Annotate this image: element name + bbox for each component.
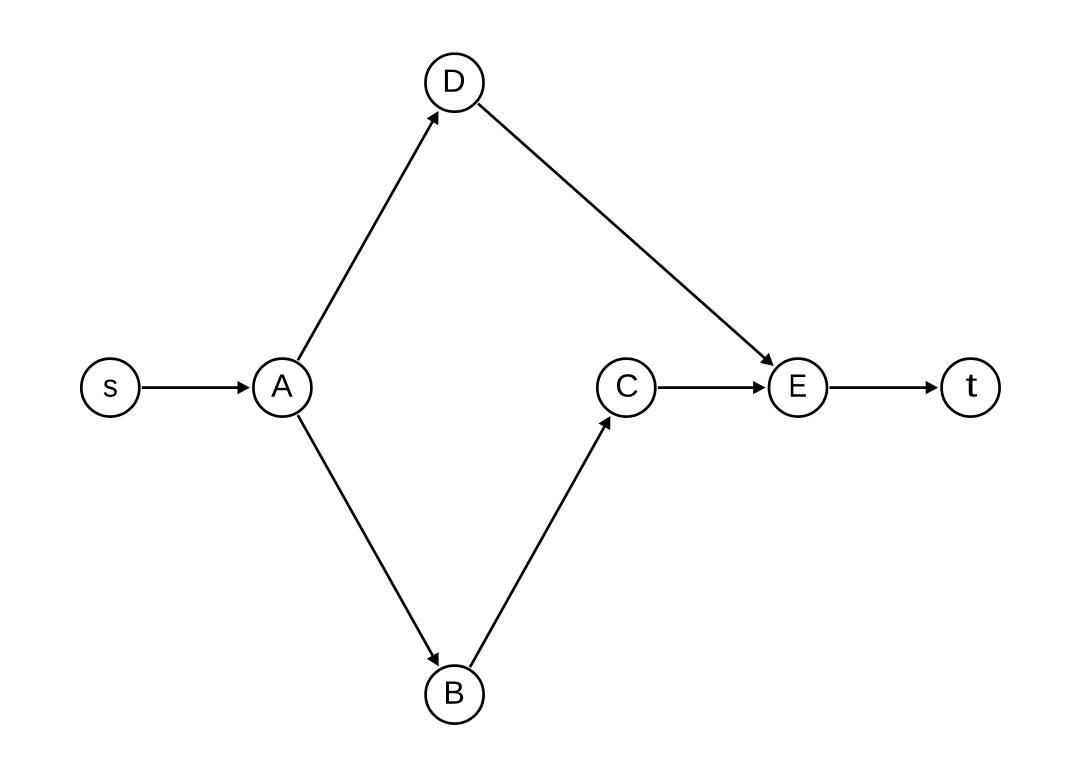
node s bbox=[81, 359, 139, 417]
edge s to A bbox=[142, 381, 250, 394]
node E bbox=[769, 359, 827, 417]
node D bbox=[426, 54, 484, 112]
edge A to D bbox=[298, 111, 439, 360]
edge C to E bbox=[658, 381, 766, 394]
node t bbox=[942, 359, 1000, 417]
edge D to E bbox=[478, 104, 774, 366]
node A bbox=[253, 359, 311, 417]
edge B to C bbox=[470, 416, 610, 667]
edge E to t bbox=[830, 381, 939, 394]
node C bbox=[597, 359, 655, 417]
node B bbox=[426, 666, 484, 724]
edge A to B bbox=[298, 415, 439, 666]
